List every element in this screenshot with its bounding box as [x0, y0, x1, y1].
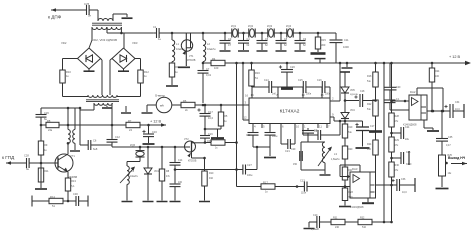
svg-text:240: 240	[335, 226, 340, 229]
svg-text:VD3: VD3	[132, 41, 138, 45]
svg-text:DA3: DA3	[352, 167, 358, 171]
svg-text:КП303Б: КП303Б	[188, 161, 197, 163]
svg-text:0,01: 0,01	[206, 73, 212, 77]
svg-text:VD2: VD2	[61, 41, 67, 45]
svg-text:R24: R24	[367, 143, 372, 146]
svg-text:C36: C36	[401, 178, 406, 181]
svg-text:C20: C20	[396, 86, 401, 89]
svg-text:R8: R8	[47, 119, 51, 123]
svg-text:110н: 110н	[301, 192, 307, 195]
svg-text:КП303В: КП303В	[187, 60, 196, 62]
svg-text:C10: C10	[313, 214, 318, 217]
svg-text:R7: R7	[128, 119, 132, 123]
svg-text:C1: C1	[153, 25, 157, 29]
svg-text:5,1: 5,1	[71, 184, 75, 188]
svg-text:VD2, VD3 КД503В: VD2, VD3 КД503В	[92, 38, 117, 42]
svg-text:C19: C19	[208, 133, 213, 136]
svg-text:R24: R24	[435, 70, 440, 73]
svg-text:R9: R9	[44, 143, 48, 147]
svg-text:10: 10	[296, 125, 300, 129]
svg-text:100н: 100н	[306, 94, 312, 96]
svg-text:C34: C34	[455, 101, 460, 104]
svg-text:R6: R6	[183, 99, 187, 103]
svg-text:К140УД608: К140УД608	[403, 123, 417, 127]
svg-text:C16: C16	[317, 79, 322, 82]
svg-text:10,0: 10,0	[208, 116, 214, 120]
svg-text:DA2: DA2	[410, 90, 416, 94]
svg-text:R28: R28	[395, 115, 400, 118]
svg-text:R30: R30	[395, 164, 400, 167]
svg-text:C25: C25	[84, 2, 90, 6]
svg-text:R32: R32	[360, 217, 365, 220]
svg-text:C21: C21	[285, 149, 290, 153]
svg-text:C11: C11	[344, 38, 349, 42]
svg-text:150: 150	[293, 163, 298, 166]
svg-text:C27: C27	[247, 163, 252, 167]
svg-text:Выход НЧ: Выход НЧ	[448, 156, 466, 160]
svg-text:+ 12 В: + 12 В	[449, 55, 461, 59]
svg-text:910: 910	[209, 177, 214, 180]
svg-text:S-метр: S-метр	[155, 94, 165, 98]
svg-text:R31: R31	[333, 217, 338, 220]
svg-text:R19: R19	[348, 126, 353, 129]
svg-text:C14: C14	[264, 79, 269, 82]
svg-text:C35: C35	[448, 136, 453, 139]
svg-text:R10: R10	[66, 70, 71, 74]
svg-text:+ 12 В: + 12 В	[150, 120, 162, 124]
svg-text:К140УД608: К140УД608	[350, 205, 364, 209]
svg-text:100: 100	[214, 66, 219, 70]
svg-text:R10: R10	[209, 172, 214, 175]
svg-text:C7: C7	[206, 67, 210, 71]
svg-text:VT1: VT1	[189, 55, 194, 58]
svg-text:R12: R12	[144, 70, 149, 74]
svg-text:VD5: VD5	[350, 89, 355, 92]
svg-text:C15: C15	[298, 79, 303, 82]
svg-text:R17: R17	[263, 181, 268, 185]
svg-text:R5: R5	[224, 114, 228, 118]
svg-text:1,8мкГн: 1,8мкГн	[331, 158, 340, 161]
svg-text:C13: C13	[300, 179, 305, 183]
svg-text:R14: R14	[50, 195, 55, 199]
svg-text:К174ХА2: К174ХА2	[280, 109, 300, 115]
svg-text:R4: R4	[212, 57, 216, 61]
svg-text:6н8: 6н8	[93, 147, 98, 151]
svg-text:10мкГн: 10мкГн	[207, 47, 216, 51]
svg-text:VD1: VD1	[154, 170, 159, 173]
svg-text:R29: R29	[395, 139, 400, 142]
svg-text:C26: C26	[44, 111, 49, 115]
svg-text:100: 100	[367, 148, 372, 151]
svg-text:С23: С23	[246, 134, 251, 137]
svg-text:100н: 100н	[272, 135, 278, 138]
svg-text:C17: C17	[370, 125, 375, 128]
svg-text:100н: 100н	[247, 174, 253, 177]
svg-text:R22: R22	[367, 103, 372, 106]
svg-text:C30: C30	[73, 192, 78, 196]
svg-text:300: 300	[321, 43, 326, 47]
svg-text:22н: 22н	[405, 138, 410, 141]
svg-text:C6: C6	[93, 139, 97, 143]
svg-text:100: 100	[178, 181, 183, 184]
svg-text:12: 12	[244, 116, 248, 120]
svg-text:ZQ2: ZQ2	[248, 24, 254, 28]
svg-text:ZQ1: ZQ1	[231, 24, 237, 28]
svg-text:мА: мА	[160, 104, 164, 108]
svg-text:10,0: 10,0	[402, 191, 407, 194]
svg-text:C14: C14	[178, 159, 183, 162]
svg-text:R11: R11	[44, 169, 49, 173]
svg-text:R23: R23	[349, 191, 354, 194]
svg-text:ZQ6: ZQ6	[130, 143, 136, 147]
svg-text:510: 510	[362, 226, 367, 229]
svg-text:C16: C16	[152, 130, 157, 134]
svg-text:C3: C3	[228, 37, 232, 41]
svg-text:16: 16	[245, 94, 249, 98]
svg-text:R13: R13	[71, 179, 76, 183]
svg-text:C17: C17	[208, 110, 213, 114]
svg-text:1,0мкФ: 1,0мкФ	[311, 228, 319, 231]
svg-text:10мкГн: 10мкГн	[130, 175, 139, 178]
svg-text:R16: R16	[255, 71, 260, 75]
svg-text:0,47: 0,47	[446, 144, 451, 147]
svg-text:к ГПД: к ГПД	[2, 155, 15, 160]
svg-text:R15: R15	[321, 38, 326, 42]
svg-text:КД503Б: КД503Б	[350, 94, 358, 96]
svg-text:C29: C29	[291, 148, 296, 151]
svg-text:R18: R18	[367, 75, 372, 78]
svg-text:C2: C2	[314, 128, 318, 132]
svg-text:C18: C18	[360, 90, 365, 93]
svg-text:1000: 1000	[343, 45, 349, 49]
svg-text:C20: C20	[290, 65, 295, 69]
svg-text:C12: C12	[115, 135, 120, 139]
svg-text:R20: R20	[348, 148, 353, 151]
svg-text:11: 11	[319, 125, 322, 129]
svg-text:к ДПФ: к ДПФ	[48, 15, 62, 20]
svg-text:C28: C28	[24, 154, 29, 158]
svg-text:5н: 5н	[88, 14, 92, 18]
svg-text:ZQ4: ZQ4	[286, 24, 292, 28]
svg-text:VT2: VT2	[184, 138, 189, 141]
svg-text:ZQ3: ZQ3	[267, 24, 273, 28]
svg-text:100: 100	[435, 75, 440, 78]
svg-text:VD4: VD4	[350, 109, 355, 112]
svg-text:VT1: VT1	[70, 154, 75, 158]
